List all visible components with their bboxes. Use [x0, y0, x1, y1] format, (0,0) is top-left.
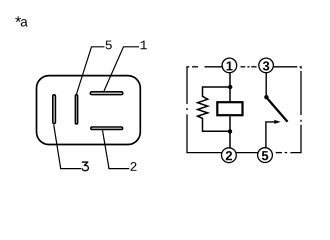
- note label *a: [15, 16, 27, 26]
- pin slot 5 (middle vertical terminal): [75, 95, 77, 124]
- enclosure right border dot: [300, 120, 302, 122]
- relay body outline: [37, 76, 141, 145]
- wire between terminals 2 and 5: [236, 152, 259, 154]
- enclosure top border long dash to terminal 1: [205, 66, 224, 68]
- terminal circle 5: [258, 148, 273, 163]
- pin slot 3 (left vertical terminal): [53, 95, 56, 124]
- enclosure top-right corner dot: [300, 67, 301, 69]
- contact pivot node: [264, 95, 268, 99]
- enclosure top border dash to terminal 3: [251, 66, 256, 68]
- enclosure bottom-left corner and wire to terminal 2: [187, 114, 223, 152]
- label 5: [106, 41, 112, 50]
- enclosure left border dot: [186, 108, 188, 110]
- wire coil to terminal 2: [229, 116, 231, 148]
- enclosure top border dash between terminals 1 and 3: [241, 66, 246, 68]
- enclosure bottom border dash to terminal 5: [276, 152, 282, 154]
- leader line pin 5: [77, 47, 105, 94]
- terminal circle 2: [222, 148, 237, 163]
- relay coil (rectangle): [217, 102, 242, 115]
- enclosure bottom-right corner dash: [290, 125, 301, 153]
- dash-dot enclosure top-left corner and left border long dash: [187, 67, 189, 104]
- enclosure right border long dash: [300, 71, 302, 115]
- leader line pin 3: [54, 125, 81, 169]
- junction node top: [228, 85, 232, 89]
- enclosure top border dash: [192, 66, 198, 68]
- leader line pin 1: [104, 47, 139, 91]
- label 2: [131, 162, 137, 171]
- pin slot 2 (lower horizontal terminal): [91, 127, 123, 129]
- wire terminal 1 to coil: [229, 73, 231, 102]
- switch blade: [267, 98, 288, 122]
- wire from terminal 3 to right border: [273, 66, 298, 68]
- terminal circle 3: [259, 58, 274, 73]
- moving contact arrowhead: [274, 120, 280, 124]
- label 1: [141, 41, 147, 50]
- enclosure top border dot: [247, 66, 249, 68]
- wire terminal 3 to contact pivot: [265, 73, 267, 97]
- resistor R (zigzag) with leads: [198, 87, 230, 131]
- wire terminal 5 to moving contact: [266, 122, 275, 148]
- leader line pin 2: [103, 130, 130, 168]
- label 3: [82, 162, 88, 171]
- junction node bottom: [228, 129, 232, 133]
- pin slot 1 (upper horizontal terminal): [90, 92, 123, 95]
- terminal circle 1: [222, 58, 237, 73]
- enclosure bottom border dot: [285, 152, 288, 154]
